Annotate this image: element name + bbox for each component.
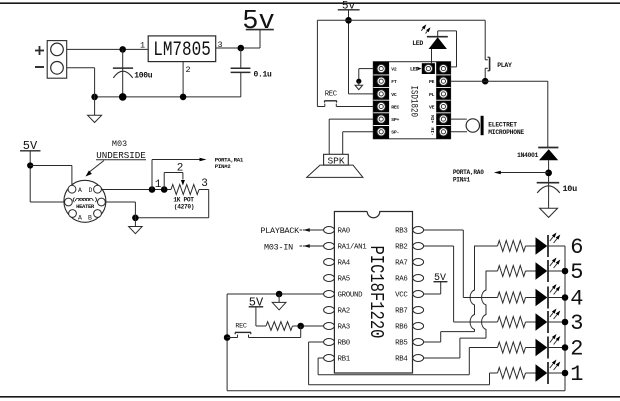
svg-text:0.1u: 0.1u (254, 71, 273, 80)
svg-text:REC: REC (391, 104, 399, 110)
svg-text:MICROPHONE: MICROPHONE (488, 129, 524, 136)
svg-text:RA1/AN1: RA1/AN1 (338, 244, 368, 252)
svg-text:RB5: RB5 (395, 340, 407, 348)
svg-text:MI+: MI+ (429, 115, 435, 124)
svg-text:RB2: RB2 (395, 244, 407, 252)
svg-text:V2: V2 (391, 67, 397, 73)
svg-text:REC: REC (325, 91, 338, 99)
svg-text:VE: VE (429, 104, 435, 110)
svg-text:UNDERSIDE: UNDERSIDE (96, 150, 146, 161)
svg-text:D: D (89, 187, 93, 194)
svg-text:RB1: RB1 (338, 356, 351, 364)
svg-text:RB7: RB7 (395, 308, 407, 316)
svg-text:A: A (78, 215, 82, 222)
svg-text:FT: FT (391, 79, 397, 85)
svg-text:RA0: RA0 (338, 228, 350, 236)
svg-text:RA5: RA5 (338, 276, 350, 284)
svg-text:B: B (88, 215, 92, 222)
svg-text:GROUND: GROUND (338, 292, 364, 300)
svg-text:PLAY: PLAY (497, 62, 512, 69)
svg-text:RA3: RA3 (338, 324, 350, 332)
svg-text:MI-: MI- (429, 128, 435, 137)
svg-text:1K POT: 1K POT (173, 197, 194, 204)
svg-text:1: 1 (155, 179, 162, 191)
svg-text:A: A (78, 187, 82, 194)
svg-text:RA7: RA7 (395, 260, 407, 268)
svg-text:1N4001: 1N4001 (517, 152, 539, 159)
svg-text:LED: LED (412, 40, 423, 47)
svg-text:PORTA,RA0: PORTA,RA0 (453, 169, 484, 176)
svg-text:3: 3 (201, 178, 208, 190)
svg-text:RA2: RA2 (338, 308, 350, 316)
svg-text:RB6: RB6 (395, 324, 407, 332)
svg-text:1: 1 (140, 41, 145, 51)
svg-text:RB4: RB4 (395, 356, 408, 364)
svg-text:2: 2 (186, 65, 191, 75)
svg-text:ISD1820: ISD1820 (408, 86, 421, 117)
svg-text:ELECTRET: ELECTRET (488, 122, 517, 129)
svg-text:VCC: VCC (395, 292, 408, 300)
svg-text:6: 6 (570, 235, 583, 260)
svg-text:PIN#1: PIN#1 (453, 176, 471, 183)
svg-text:REC: REC (235, 322, 247, 330)
svg-text:PIN#2: PIN#2 (215, 163, 232, 170)
svg-text:10u: 10u (563, 184, 578, 194)
svg-text:4: 4 (570, 287, 583, 312)
svg-text:(4270): (4270) (174, 204, 194, 211)
svg-text:RB0: RB0 (338, 340, 350, 348)
svg-text:HEATER: HEATER (76, 203, 95, 210)
svg-text:5v: 5v (242, 7, 274, 37)
svg-text:M03-IN: M03-IN (264, 242, 293, 252)
svg-text:M03: M03 (112, 139, 127, 149)
svg-text:PLAYBACK: PLAYBACK (260, 226, 300, 236)
svg-text:VC: VC (391, 92, 397, 98)
svg-text:3: 3 (570, 311, 583, 336)
svg-text:SP-: SP- (391, 130, 399, 136)
svg-text:LED: LED (410, 67, 419, 73)
svg-text:SP+: SP+ (391, 117, 399, 123)
svg-text:1: 1 (570, 362, 583, 387)
svg-text:PIC18F1220: PIC18F1220 (364, 246, 386, 339)
svg-text:PL: PL (429, 92, 435, 98)
svg-text:RB3: RB3 (395, 228, 407, 236)
svg-text:2: 2 (570, 337, 583, 362)
svg-text:100u: 100u (134, 72, 153, 81)
svg-text:5: 5 (570, 260, 583, 285)
svg-text:RA4: RA4 (338, 260, 351, 268)
svg-text:RA6: RA6 (395, 276, 407, 284)
svg-text:LM7805: LM7805 (153, 38, 211, 61)
svg-text:PE: PE (429, 79, 435, 85)
